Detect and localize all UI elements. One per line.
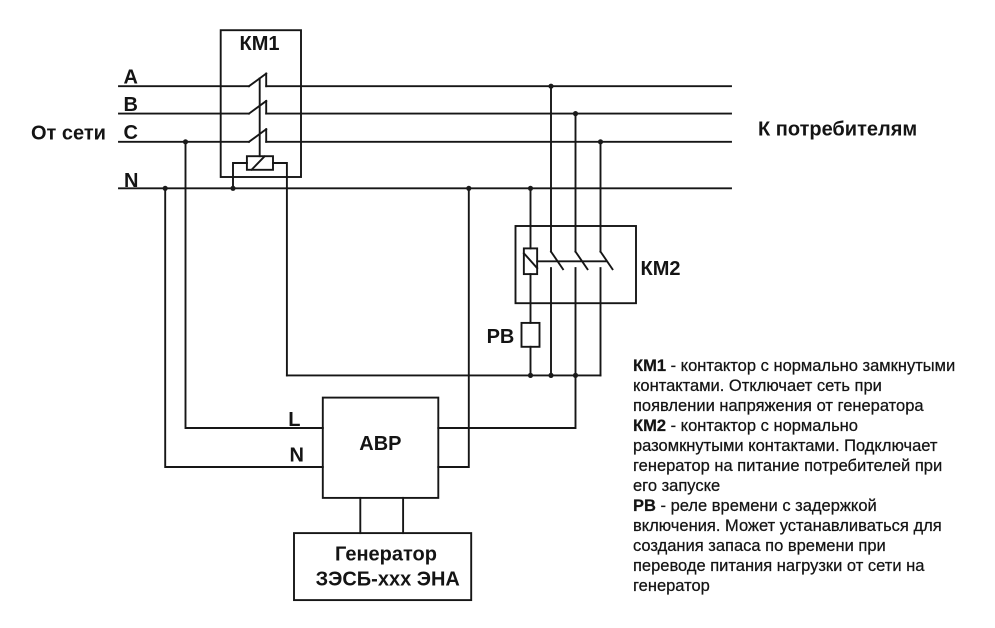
svg-text:К потребителям: К потребителям xyxy=(758,118,917,140)
wire KM1 coil right lead to bottom bus xyxy=(273,163,287,375)
contactor KM1 box xyxy=(221,30,301,177)
junction bus and relay PB xyxy=(528,373,533,378)
svg-text:L: L xyxy=(288,409,300,431)
svg-text:КМ2: КМ2 xyxy=(641,258,681,280)
wire bottom bus xyxy=(287,374,601,376)
wire phase A to KM2 contact 1 xyxy=(550,86,552,251)
svg-text:N: N xyxy=(124,170,138,192)
KM1 mechanical linkage xyxy=(259,79,261,157)
svg-text:РВ: РВ xyxy=(487,326,515,348)
wire neutral N xyxy=(119,187,731,189)
junction N to AVR branch xyxy=(466,186,471,191)
AVR control unit box xyxy=(323,398,439,498)
svg-text:От сети: От сети xyxy=(31,123,106,145)
wire phase A right segment xyxy=(266,85,731,87)
svg-text:N: N xyxy=(290,445,304,467)
junction phase B to KM2 xyxy=(573,111,578,116)
wire KM2 coil to relay PB xyxy=(530,274,532,323)
svg-text:A: A xyxy=(124,67,138,89)
KM1 NC contact phase B blade xyxy=(249,101,266,114)
wire phase C right segment xyxy=(266,141,731,143)
svg-text:АВР: АВР xyxy=(359,433,401,455)
generator box xyxy=(294,533,471,600)
wire phase B to KM2 contact 2 xyxy=(575,114,577,252)
svg-text:Генератор: Генератор xyxy=(335,544,437,566)
junction N tap left xyxy=(163,186,168,191)
svg-text:ЗЭСБ-ххх ЭНА: ЗЭСБ-ххх ЭНА xyxy=(316,569,460,591)
wire AVR to generator right xyxy=(402,498,404,533)
wire phase C to KM2 contact 3 xyxy=(600,142,602,252)
KM1 NC contact phase A blade xyxy=(249,74,266,87)
KM2 coil xyxy=(524,248,537,274)
junction bus and KM2 contact 1 xyxy=(548,373,553,378)
KM1 NC contact phase C blade xyxy=(249,129,266,142)
wire C phase tap to AVR L input xyxy=(186,142,323,428)
wire phase A left segment xyxy=(119,85,249,87)
svg-text:C: C xyxy=(124,122,138,144)
wire N tap to AVR N input xyxy=(165,188,323,467)
wire relay PB to bottom bus xyxy=(530,347,532,376)
KM1 coil xyxy=(247,156,273,170)
wire KM1 coil left lead to N xyxy=(233,163,247,188)
wire N tap to AVR right lower terminal xyxy=(438,188,469,467)
wire phase C left segment xyxy=(119,141,249,143)
junction phase C to KM2 xyxy=(598,139,603,144)
wire AVR to generator left xyxy=(359,498,361,533)
wire phase B right segment xyxy=(266,113,731,115)
time relay PB body xyxy=(522,323,540,347)
junction phase A to KM2 xyxy=(548,84,553,89)
junction N to KM2 coil xyxy=(528,186,533,191)
wire KM2 contact 2 through bus to AVR upper right terminal xyxy=(438,268,575,428)
wire N to KM2 coil xyxy=(530,188,532,248)
KM2 NO contact 2 blade xyxy=(576,252,588,270)
wire KM2 contact 1 to bottom bus xyxy=(550,268,552,375)
KM2 NO contact 1 blade xyxy=(551,252,563,270)
junction bus and KM2 contact 2 xyxy=(573,373,578,378)
wire KM2 contact 3 to bottom bus end xyxy=(600,268,602,375)
KM2 mechanical linkage xyxy=(537,260,606,262)
legend text block xyxy=(633,356,973,596)
junction KM1 coil on N xyxy=(230,186,235,191)
wire phase B left segment xyxy=(119,113,249,115)
junction C phase tap xyxy=(183,139,188,144)
svg-text:КМ1: КМ1 xyxy=(240,33,280,55)
KM2 NO contact 3 blade xyxy=(601,252,613,270)
contactor KM2 box xyxy=(516,226,637,303)
svg-text:B: B xyxy=(124,94,138,116)
